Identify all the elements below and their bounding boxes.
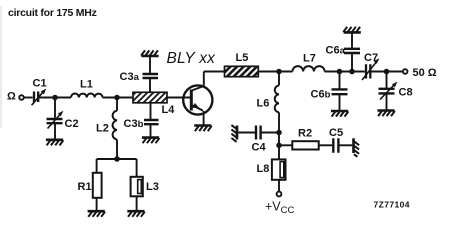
svg-text:BLY xx: BLY xx [167,50,217,67]
svg-text:R2: R2 [298,128,312,140]
svg-text:R1: R1 [78,181,92,193]
wire [96,159,98,173]
svg-text:L4: L4 [162,104,176,116]
wire [278,180,280,192]
inductor L3 (choke) [131,177,143,197]
capacitor C8 (trimmer) [379,72,398,111]
wire [278,72,280,86]
ground [142,138,160,144]
wire [319,144,333,146]
svg-text:L3: L3 [146,181,159,193]
node junction G [349,69,355,75]
wire [136,196,138,211]
wire [54,98,56,118]
ground (right, C5) [354,138,360,157]
ground [88,211,106,217]
scan artifact left edge [0,6,2,128]
ground (top) [343,27,361,33]
ground [127,211,144,217]
wire collector [204,71,225,73]
node junction F [337,69,343,75]
svg-text:C5: C5 [329,127,343,139]
inductor L2 [113,111,117,140]
svg-text:C4: C4 [252,142,267,154]
wire [325,71,365,73]
node junction H [384,69,390,75]
node junction A [52,95,58,101]
svg-text:C1: C1 [33,78,47,90]
wire base [167,97,190,99]
wire [97,140,137,160]
output terminal [403,69,408,74]
ground [377,111,395,117]
stripline L4 [133,92,167,103]
inductor L6 [275,86,279,113]
resistor R1 [93,173,102,198]
input terminal [19,95,24,100]
svg-text:7Z77104: 7Z77104 [374,200,410,210]
wire [238,132,255,134]
capacitor C7 (trimmer) [362,58,380,80]
wire [136,159,138,177]
svg-text:C7: C7 [364,52,378,64]
wire [24,97,33,99]
svg-text:+VCC: +VCC [265,200,295,217]
capacitor C6b [332,72,348,112]
svg-text:C3a: C3a [120,71,140,83]
svg-text:C8: C8 [399,87,413,99]
inductor L8 (choke) [272,159,286,179]
svg-text:C6b: C6b [311,89,331,101]
capacitor C3b [144,103,159,138]
capacitor C1 (trimmer) [32,89,47,106]
wire [279,144,292,146]
inductor L1 [71,94,103,98]
capacitor C6a [344,33,360,72]
wire [40,97,72,99]
inductor L7 [293,66,325,71]
transistor Q1 BLY xx [183,72,212,126]
node junction E [276,130,282,136]
node junction C [114,156,120,162]
svg-text:L6: L6 [257,98,270,110]
svg-text:circuit for 175 MHz: circuit for 175 MHz [8,7,97,19]
ground (left, C4) [231,125,237,142]
wire [262,132,279,134]
ground [331,111,349,117]
svg-text:C3b: C3b [124,118,144,130]
wire [339,144,352,146]
wire [278,112,280,132]
resistor R2 [292,141,318,149]
capacitor C3a [143,56,159,92]
svg-text:L1: L1 [80,79,93,91]
capacitor C5 [333,138,338,152]
stripline L5 [225,66,259,76]
wire [116,98,118,111]
wire [258,71,292,73]
ground (emitter) [194,126,212,132]
ground (top) [141,50,159,56]
wire [96,198,98,211]
wire [278,133,280,160]
node junction B [114,95,120,101]
capacitor C2 (trimmer) [47,111,64,129]
Vcc terminal [277,192,282,197]
svg-text:L7: L7 [303,53,316,65]
svg-text:C6a: C6a [326,45,346,57]
capacitor C4 [256,126,261,140]
wire [371,71,403,73]
svg-text:L2: L2 [96,123,109,135]
svg-text:L5: L5 [236,52,249,64]
svg-text:50 Ω: 50 Ω [413,67,437,79]
wire [54,123,56,140]
svg-text:L8: L8 [257,163,270,175]
wire [103,97,134,99]
svg-text:Ω: Ω [7,91,16,103]
node junction I [276,143,282,149]
svg-text:C2: C2 [65,118,79,130]
node junction D [276,69,282,75]
ground [46,140,64,146]
